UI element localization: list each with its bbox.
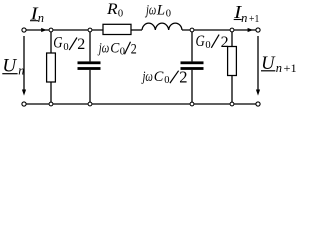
svg-text:0: 0 bbox=[120, 46, 125, 57]
node bottom C bbox=[190, 102, 194, 106]
svg-text:G: G bbox=[53, 35, 62, 52]
node top A bbox=[49, 28, 53, 32]
svg-text:jω: jω bbox=[141, 69, 153, 85]
wire top mid segment bbox=[131, 29, 142, 31]
conductance G0/2 right bbox=[228, 47, 237, 76]
svg-text:0: 0 bbox=[63, 42, 68, 53]
svg-text:R: R bbox=[106, 1, 118, 18]
wire shunt lead G right bottom bbox=[231, 76, 233, 105]
svg-text:jω: jω bbox=[145, 2, 157, 18]
wire shunt lead C right bottom bbox=[191, 70, 193, 104]
label jωC0/2 left bbox=[97, 40, 136, 57]
wire shunt lead G left bottom bbox=[50, 82, 52, 104]
voltage arrow Un bbox=[22, 36, 26, 96]
label G0/2 left bbox=[53, 35, 85, 54]
current arrow In+1 head bbox=[248, 28, 253, 32]
capacitor C0/2 right plates bbox=[181, 61, 204, 70]
terminal bottom-left bbox=[22, 102, 26, 106]
wire shunt lead C right top bbox=[191, 30, 193, 61]
wire bottom bbox=[26, 103, 256, 105]
node bottom A bbox=[49, 102, 53, 106]
label G0/2 right bbox=[196, 33, 229, 51]
node top D bbox=[230, 28, 234, 32]
svg-text:0: 0 bbox=[166, 9, 171, 20]
node bottom D bbox=[230, 102, 234, 106]
svg-text:0: 0 bbox=[164, 75, 169, 86]
node top C bbox=[190, 28, 194, 32]
svg-text:n: n bbox=[276, 61, 282, 75]
svg-text:2: 2 bbox=[179, 67, 187, 86]
label R0 bbox=[106, 1, 123, 20]
label jωC0/2 right bbox=[141, 67, 187, 86]
conductance G0/2 left bbox=[47, 53, 56, 82]
label jωL0 bbox=[145, 2, 171, 19]
svg-text:C: C bbox=[154, 69, 165, 85]
wire top left segment bbox=[26, 29, 103, 31]
terminal top-right bbox=[256, 28, 260, 32]
svg-text:n: n bbox=[241, 11, 247, 25]
label Un+1 bbox=[261, 54, 297, 75]
wire top right segment bbox=[182, 29, 256, 31]
label In+1 bbox=[233, 2, 259, 25]
resistor R0 bbox=[103, 24, 131, 34]
svg-text:n: n bbox=[18, 63, 24, 77]
inductor L0 bbox=[142, 23, 182, 30]
terminal top-left bbox=[22, 28, 26, 32]
svg-text:n: n bbox=[38, 11, 44, 25]
wire shunt lead C left top bbox=[89, 30, 91, 61]
wire shunt lead C left bottom bbox=[89, 70, 91, 104]
svg-text:jω: jω bbox=[97, 40, 109, 56]
wire shunt lead G right top bbox=[231, 30, 233, 47]
svg-text:+1: +1 bbox=[249, 13, 259, 25]
terminal bottom-right bbox=[256, 102, 260, 106]
svg-text:0: 0 bbox=[118, 9, 123, 20]
svg-text:G: G bbox=[196, 33, 205, 50]
label Un bbox=[2, 55, 24, 77]
node top B bbox=[88, 28, 92, 32]
svg-text:L: L bbox=[156, 2, 165, 18]
capacitor C0/2 left plates bbox=[78, 61, 101, 70]
svg-text:2: 2 bbox=[131, 41, 137, 57]
voltage arrow Un+1 bbox=[256, 36, 260, 96]
wire shunt lead G left top bbox=[50, 30, 52, 53]
svg-text:2: 2 bbox=[77, 36, 85, 53]
node bottom B bbox=[88, 102, 92, 106]
label In bbox=[29, 3, 44, 25]
svg-text:2: 2 bbox=[221, 34, 229, 51]
svg-text:+1: +1 bbox=[284, 63, 297, 75]
svg-text:0: 0 bbox=[205, 40, 210, 51]
current arrow In head bbox=[41, 28, 46, 32]
